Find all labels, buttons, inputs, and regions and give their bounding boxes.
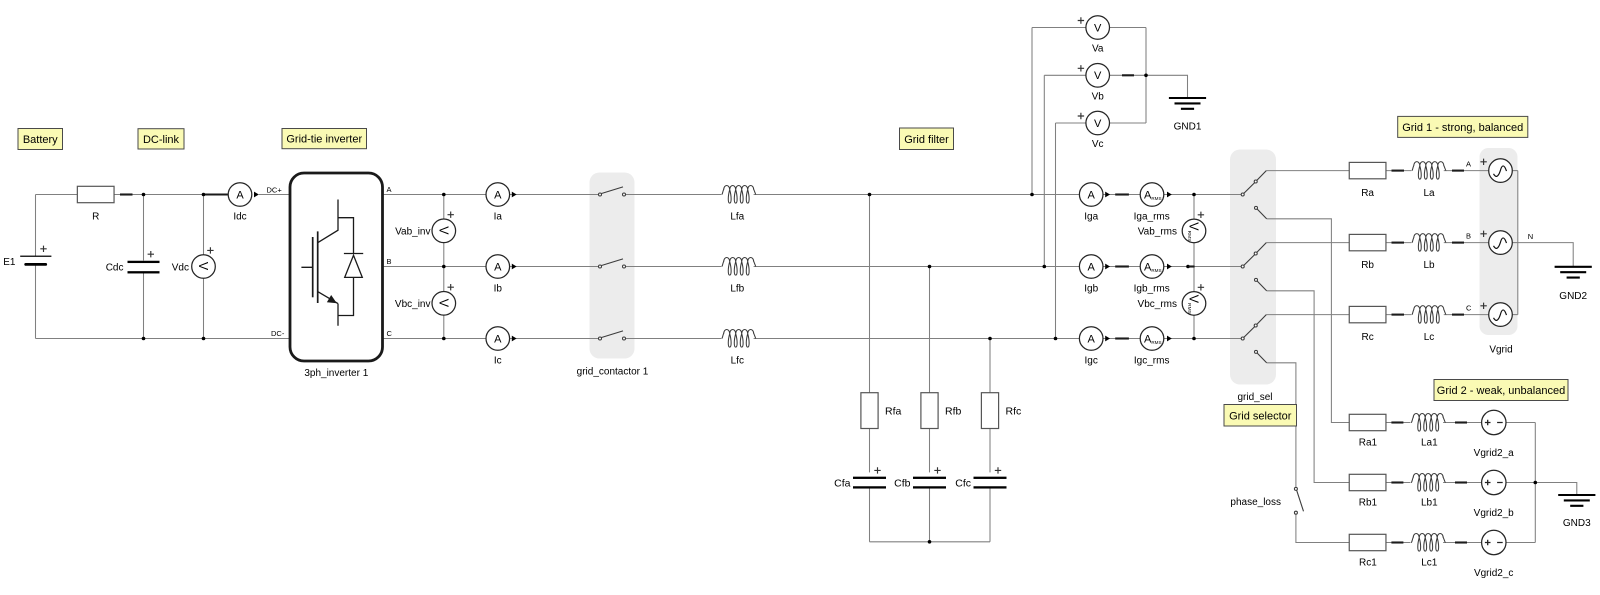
svg-text:La1: La1 bbox=[1421, 438, 1438, 449]
svg-text:DC+: DC+ bbox=[267, 186, 283, 195]
svg-text:N: N bbox=[1528, 232, 1533, 241]
svg-text:Igc_rms: Igc_rms bbox=[1134, 355, 1170, 366]
svg-text:A: A bbox=[494, 261, 502, 273]
svg-text:GND2: GND2 bbox=[1559, 291, 1587, 302]
svg-text:Rfb: Rfb bbox=[945, 405, 962, 417]
svg-text:A: A bbox=[494, 189, 502, 201]
svg-text:Lc: Lc bbox=[1424, 332, 1435, 343]
svg-text:Cfc: Cfc bbox=[955, 478, 971, 490]
svg-text:Vgrid2_b: Vgrid2_b bbox=[1474, 508, 1514, 519]
svg-text:Ra: Ra bbox=[1361, 188, 1374, 199]
svg-text:V: V bbox=[1094, 70, 1102, 82]
svg-text:V: V bbox=[1094, 22, 1102, 34]
svg-text:Vdc: Vdc bbox=[172, 263, 189, 274]
svg-text:Iga_rms: Iga_rms bbox=[1134, 211, 1170, 222]
svg-text:Vc: Vc bbox=[1092, 139, 1104, 150]
svg-text:Rfa: Rfa bbox=[885, 405, 902, 417]
svg-text:Ic: Ic bbox=[494, 355, 502, 366]
svg-text:A: A bbox=[1466, 159, 1471, 168]
svg-text:A: A bbox=[1088, 261, 1096, 273]
svg-text:A: A bbox=[387, 185, 392, 194]
svg-text:V: V bbox=[437, 226, 451, 235]
svg-text:Igb_rms: Igb_rms bbox=[1134, 283, 1170, 294]
svg-text:A: A bbox=[1088, 333, 1096, 345]
svg-text:Lb1: Lb1 bbox=[1421, 498, 1438, 509]
svg-text:V: V bbox=[196, 262, 210, 271]
svg-text:Grid filter: Grid filter bbox=[904, 134, 949, 146]
svg-text:Ib: Ib bbox=[494, 283, 503, 294]
svg-text:Igb: Igb bbox=[1084, 283, 1098, 294]
svg-text:Grid 2 - weak, unbalanced: Grid 2 - weak, unbalanced bbox=[1437, 385, 1565, 397]
svg-text:Grid-tie inverter: Grid-tie inverter bbox=[286, 134, 362, 146]
svg-text:Rc: Rc bbox=[1361, 332, 1373, 343]
svg-text:R: R bbox=[92, 212, 99, 223]
svg-text:C: C bbox=[387, 329, 393, 338]
svg-text:Lb: Lb bbox=[1423, 260, 1435, 271]
svg-text:Ra1: Ra1 bbox=[1359, 438, 1378, 449]
svg-text:Lfa: Lfa bbox=[730, 211, 744, 222]
svg-text:A: A bbox=[236, 189, 244, 201]
svg-text:V: V bbox=[1094, 118, 1102, 130]
svg-text:Vab_rms: Vab_rms bbox=[1138, 226, 1177, 237]
svg-text:Rb1: Rb1 bbox=[1359, 498, 1378, 509]
svg-text:Ia: Ia bbox=[494, 211, 503, 222]
svg-text:Idc: Idc bbox=[233, 212, 246, 223]
svg-text:GND3: GND3 bbox=[1563, 518, 1591, 529]
svg-text:Rc1: Rc1 bbox=[1359, 558, 1377, 569]
svg-text:Vgrid2_a: Vgrid2_a bbox=[1474, 448, 1514, 459]
svg-text:Lfb: Lfb bbox=[730, 283, 744, 294]
svg-text:A: A bbox=[1088, 189, 1096, 201]
svg-text:DC-: DC- bbox=[271, 329, 285, 338]
svg-text:Vab_inv: Vab_inv bbox=[395, 226, 430, 237]
svg-text:Battery: Battery bbox=[23, 134, 58, 146]
svg-text:Lfc: Lfc bbox=[731, 355, 744, 366]
svg-text:DC-link: DC-link bbox=[143, 134, 180, 146]
svg-text:La: La bbox=[1423, 188, 1435, 199]
svg-text:B: B bbox=[387, 257, 392, 266]
svg-text:Rfc: Rfc bbox=[1006, 405, 1022, 417]
svg-text:A: A bbox=[494, 333, 502, 345]
svg-text:Rb: Rb bbox=[1361, 260, 1374, 271]
svg-text:V: V bbox=[437, 299, 451, 308]
svg-text:Cfa: Cfa bbox=[834, 478, 851, 490]
svg-text:Grid 1 - strong, balanced: Grid 1 - strong, balanced bbox=[1402, 122, 1523, 134]
svg-text:grid_sel: grid_sel bbox=[1237, 392, 1272, 403]
svg-text:Cdc: Cdc bbox=[106, 263, 124, 274]
svg-text:B: B bbox=[1466, 231, 1471, 240]
svg-text:Lc1: Lc1 bbox=[1421, 558, 1438, 569]
svg-text:C: C bbox=[1466, 303, 1472, 312]
svg-text:Vgrid2_c: Vgrid2_c bbox=[1474, 568, 1513, 579]
svg-text:Cfb: Cfb bbox=[894, 478, 911, 490]
svg-text:Vbc_rms: Vbc_rms bbox=[1138, 299, 1177, 310]
svg-text:Iga: Iga bbox=[1084, 211, 1098, 222]
svg-text:Vgrid: Vgrid bbox=[1489, 345, 1512, 356]
svg-text:GND1: GND1 bbox=[1174, 121, 1202, 132]
svg-text:3ph_inverter 1: 3ph_inverter 1 bbox=[304, 368, 368, 379]
svg-text:grid_contactor 1: grid_contactor 1 bbox=[577, 367, 649, 378]
svg-text:E1: E1 bbox=[3, 257, 16, 268]
svg-text:Grid selector: Grid selector bbox=[1229, 410, 1292, 422]
svg-text:Va: Va bbox=[1092, 44, 1104, 55]
svg-text:Igc: Igc bbox=[1085, 355, 1098, 366]
svg-text:Vb: Vb bbox=[1092, 91, 1105, 102]
svg-text:phase_loss: phase_loss bbox=[1230, 497, 1281, 508]
svg-text:Vbc_inv: Vbc_inv bbox=[395, 299, 431, 310]
